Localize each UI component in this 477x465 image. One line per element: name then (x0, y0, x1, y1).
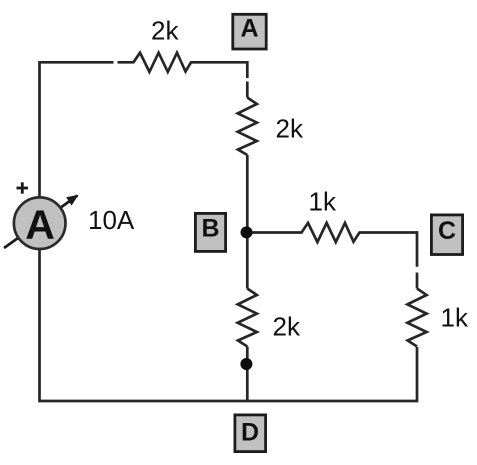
wire (246, 155, 249, 289)
svg-text:C: C (438, 217, 456, 245)
resistor R5 1k (407, 289, 426, 347)
node label C (431, 215, 462, 255)
svg-text:A: A (240, 14, 258, 42)
node label A (233, 14, 266, 49)
current source I1 arrow (4, 195, 79, 248)
current source I1 body (14, 197, 66, 249)
node label D (235, 415, 266, 452)
wire (246, 347, 249, 402)
resistor R4 2k (238, 289, 257, 347)
svg-text:2k: 2k (273, 312, 301, 342)
resistor R2 2k (238, 98, 257, 156)
resistor R1 2k (118, 53, 248, 78)
svg-text:A: A (25, 202, 55, 248)
wire (246, 82, 249, 98)
svg-text:1k: 1k (309, 187, 337, 217)
current source I1 plus sign (17, 182, 29, 193)
svg-text:2k: 2k (276, 114, 304, 144)
svg-text:10A: 10A (88, 205, 135, 235)
svg-text:1k: 1k (441, 303, 469, 333)
wire (416, 273, 419, 289)
wire (40, 250, 418, 402)
resistor R3 1k (247, 223, 418, 267)
svg-text:D: D (241, 419, 259, 447)
junction dot lower (240, 358, 252, 370)
svg-text:B: B (201, 214, 219, 242)
node label B (195, 213, 225, 251)
node B junction dot (241, 226, 253, 238)
svg-text:2k: 2k (151, 16, 179, 46)
wire (40, 62, 114, 196)
